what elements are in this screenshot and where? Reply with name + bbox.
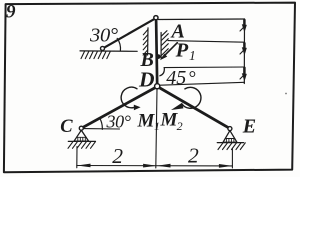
support triangle at E xyxy=(223,131,237,143)
svg-text:30°: 30° xyxy=(89,24,118,46)
support triangle at C xyxy=(74,130,89,141)
svg-text:1: 1 xyxy=(189,48,196,63)
bar D-C xyxy=(81,87,157,129)
svg-text:1: 1 xyxy=(154,119,160,133)
dimension arrow from line 3 pointing down to line 4 xyxy=(240,68,247,82)
svg-text:P: P xyxy=(175,39,189,61)
dimension extension line 4 (level of D) xyxy=(160,82,244,85)
upper-left pin circle xyxy=(101,46,105,50)
dimension extension line 1 (top, from node A) xyxy=(158,18,244,21)
svg-text:M: M xyxy=(137,110,156,131)
upper-left ground line xyxy=(80,50,137,52)
svg-text:30°: 30° xyxy=(106,112,131,132)
pin circle at E xyxy=(228,127,232,131)
dimension arrow right (at E extension) xyxy=(219,164,233,168)
force P1 arrowhead pointing down-left at B xyxy=(160,54,167,61)
svg-text:2: 2 xyxy=(177,119,183,133)
svg-text:45: 45 xyxy=(166,67,186,89)
moment M1 arrowhead xyxy=(134,105,141,111)
force P1 shaft xyxy=(162,43,177,58)
right wall hatching xyxy=(161,31,168,56)
top node circle xyxy=(154,16,158,20)
right wall line of slider xyxy=(160,33,162,59)
svg-text:2: 2 xyxy=(188,143,199,167)
small speck near right border xyxy=(285,93,287,95)
svg-text:2: 2 xyxy=(112,144,123,168)
dimension arrow below line 1 xyxy=(240,20,247,33)
ground line at C xyxy=(68,140,95,142)
svg-text:°: ° xyxy=(188,68,196,89)
dimension extension line 2 (level of P1 tail) xyxy=(168,41,245,43)
ground line at E xyxy=(217,142,243,144)
ground line right of pin C xyxy=(84,128,120,130)
bottom dimension line xyxy=(77,165,233,167)
moment M2 arc (clockwise, open left) xyxy=(182,87,201,108)
moment M1 arc (counterclockwise, open right) xyxy=(121,87,137,108)
ground hatching at C xyxy=(68,142,96,149)
svg-text:E: E xyxy=(242,115,256,137)
rod from top node to upper-left pin xyxy=(103,18,156,48)
bar D-E xyxy=(157,87,230,129)
left wall hatching xyxy=(143,30,148,56)
extension line below C support xyxy=(76,147,78,168)
vertical bar A-D xyxy=(156,19,157,86)
left wall line of slider xyxy=(147,28,149,55)
roller marks inside C triangle xyxy=(77,137,87,141)
svg-text:C: C xyxy=(60,117,73,137)
right vertical dimension line xyxy=(243,19,245,84)
node D circle xyxy=(155,84,160,89)
arc of 30 degree angle at C xyxy=(99,118,102,130)
dimension arrow left (at C extension) xyxy=(77,164,91,168)
dimension arrow below line 2 xyxy=(240,43,247,55)
upper-left ground hatching xyxy=(81,51,110,58)
arc of 45 degree angle at B xyxy=(160,68,165,76)
border frame xyxy=(4,3,295,173)
dimension arrow left-pointing at middle xyxy=(157,164,171,168)
svg-text:9: 9 xyxy=(6,2,16,23)
dimension extension line 3 (level of 45 arc) xyxy=(164,66,245,69)
dimension arrow right-pointing at middle xyxy=(143,164,157,168)
pin circle at C xyxy=(79,126,83,130)
ground hatching at E xyxy=(218,143,245,150)
force application dot at B xyxy=(156,54,161,59)
roller marks inside E triangle xyxy=(225,139,235,143)
extension line below E support xyxy=(231,149,233,168)
arc of 30 degree angle at upper-left pin xyxy=(117,38,120,50)
extension line below D to dimension line xyxy=(156,89,157,168)
moment M2 arrowhead xyxy=(171,103,183,110)
